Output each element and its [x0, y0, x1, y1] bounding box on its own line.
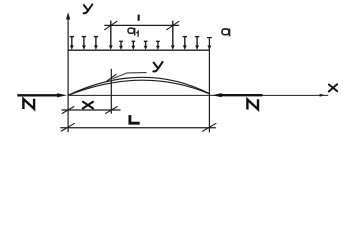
load arrow 3: [94, 37, 98, 50]
deflection curve upper: [68, 77, 209, 95]
tick L left: [61, 123, 75, 131]
y-axis arrowhead: [66, 12, 70, 19]
dimension line l: [104, 24, 179, 26]
force N left arrow: [17, 94, 58, 96]
label N right: [247, 99, 258, 109]
label N left: [23, 99, 34, 109]
tick x-dim right: [105, 106, 117, 113]
load arrow 1: [70, 37, 74, 50]
y-axis: [67, 17, 69, 132]
load arrow 7 (short): [144, 41, 148, 50]
tick l left: [104, 21, 117, 30]
x axis arrowhead: [320, 94, 326, 97]
label L: [130, 115, 140, 123]
beam axis chord: [68, 94, 209, 96]
load arrow 4 / l-dim extension left: [109, 21, 113, 50]
L dimension line: [60, 127, 216, 129]
N left arrowhead: [57, 93, 67, 97]
load arrow 9 / l-dim extension right: [171, 21, 175, 50]
label x (dimension): [83, 102, 93, 109]
label q1: [128, 28, 138, 37]
x dimension line: [62, 109, 121, 111]
arrowhead of arrow 12: [208, 45, 212, 50]
N right arrowhead: [212, 93, 222, 97]
tick L right: [202, 123, 216, 131]
load arrow 11: [195, 37, 199, 50]
load arrow 2: [82, 37, 86, 50]
load arrow 6 (short): [131, 41, 135, 50]
tick on curve: [106, 74, 116, 81]
label l: [138, 15, 140, 21]
deflection curve lower: [68, 80, 209, 95]
leader to y label: [113, 73, 147, 79]
load arrow 12 (on right end line) cap: [207, 37, 212, 39]
label y (deflection): [153, 62, 162, 72]
label x (axis): [329, 84, 338, 91]
section line at x: [110, 69, 112, 114]
load arrow 5 (short): [119, 41, 123, 50]
label y (axis): [84, 4, 93, 13]
load baseline (beam top line): [68, 49, 210, 51]
tick x-dim left: [62, 106, 74, 113]
load arrow 10: [183, 37, 187, 50]
right beam end line: [208, 38, 210, 133]
x axis line: [209, 94, 328, 96]
force N right arrow: [221, 94, 263, 96]
load arrow 8 (short): [156, 41, 160, 50]
label q: [222, 29, 230, 37]
tick l right: [166, 21, 179, 30]
